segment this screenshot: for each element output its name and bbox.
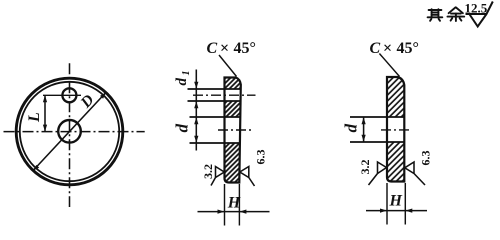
hanzi YU (余) bbox=[448, 7, 465, 21]
svg-text:C: C bbox=[370, 40, 381, 57]
section outline bbox=[225, 78, 241, 183]
svg-text:12.5: 12.5 bbox=[465, 1, 488, 16]
general roughness 12.5 symbol bbox=[466, 2, 493, 27]
dimension L line bbox=[44, 95, 46, 131]
H arrow right (right view) bbox=[405, 209, 412, 213]
dimension L arrow down bbox=[43, 125, 47, 132]
H arrow left (right view) bbox=[380, 209, 387, 213]
hole d1 centerline bbox=[193, 94, 256, 96]
chamfer leader line (right) bbox=[379, 54, 399, 77]
H arrow left (middle) bbox=[218, 210, 225, 214]
d1 arrow from above bbox=[194, 82, 198, 89]
center hole bbox=[58, 120, 81, 143]
H arrow right (middle) bbox=[239, 210, 246, 214]
roughness 6.3 symbol (middle right) bbox=[240, 167, 255, 187]
small hole bbox=[62, 88, 76, 102]
vertical centerline bbox=[69, 63, 71, 207]
svg-text:d: d bbox=[342, 124, 361, 133]
dimension D arrow lower-left bbox=[33, 165, 39, 171]
dimension D arrow upper-right bbox=[100, 92, 106, 98]
section body hatch bottom block (right) bbox=[387, 142, 404, 182]
hole d top edge / extension line (right) bbox=[350, 116, 404, 118]
H extension line left (right view) bbox=[386, 183, 388, 225]
svg-text:d: d bbox=[173, 124, 192, 133]
svg-text:L: L bbox=[26, 112, 43, 123]
H extension line right (right view) bbox=[404, 183, 406, 225]
H extension line right (middle) bbox=[238, 184, 240, 226]
section body hatch bottom block bbox=[225, 143, 241, 183]
small hole horizontal centerline bbox=[43, 94, 81, 96]
d1 arrow from below bbox=[194, 101, 198, 108]
d arrow up bbox=[194, 117, 198, 124]
H dimension line (middle) bbox=[198, 211, 270, 213]
horizontal centerline bbox=[4, 131, 145, 133]
H dimension line (right view) bbox=[366, 210, 427, 212]
svg-text:d1: d1 bbox=[174, 71, 192, 86]
svg-text:×: × bbox=[220, 40, 229, 57]
section body hatch top block (right) bbox=[387, 77, 404, 117]
section body hatch top block bbox=[225, 78, 241, 90]
svg-text:45°: 45° bbox=[397, 40, 419, 57]
section outline (right) bbox=[387, 77, 404, 182]
svg-text:H: H bbox=[227, 194, 241, 211]
roughness 3.2 symbol (right view) bbox=[369, 162, 387, 185]
roughness 6.3 symbol (right view) bbox=[405, 162, 425, 185]
hole d1 top edge / extension line bbox=[188, 88, 241, 90]
dimension D diagonal line bbox=[33, 92, 106, 170]
d arrow down bbox=[194, 136, 198, 143]
svg-text:6.3: 6.3 bbox=[419, 151, 433, 166]
svg-text:D: D bbox=[77, 91, 98, 112]
inner chamfer circle bbox=[20, 82, 119, 181]
svg-text:45°: 45° bbox=[234, 40, 256, 57]
H extension line left (middle) bbox=[224, 184, 226, 226]
hole d centerline (right) bbox=[381, 129, 412, 131]
hole d centerline bbox=[218, 129, 251, 131]
hanzi QI (其) bbox=[428, 9, 443, 21]
svg-text:6.3: 6.3 bbox=[254, 150, 268, 165]
svg-text:H: H bbox=[389, 192, 403, 209]
svg-text:3.2: 3.2 bbox=[358, 160, 372, 175]
svg-text:C: C bbox=[207, 40, 218, 57]
hole d top edge / extension line bbox=[190, 116, 241, 118]
d arrow down (right) bbox=[362, 135, 366, 142]
hole d bottom edge / extension line (right) bbox=[350, 141, 404, 143]
outer circle bbox=[16, 78, 123, 185]
chamfer leader line (middle) bbox=[219, 55, 237, 77]
d dimension line (right) bbox=[363, 117, 365, 142]
svg-text:×: × bbox=[383, 40, 392, 57]
hole d bottom edge / extension line bbox=[190, 142, 241, 144]
roughness 3.2 symbol (middle left) bbox=[211, 167, 224, 186]
d arrow up (right) bbox=[362, 117, 366, 124]
d1/d dimension line bbox=[195, 70, 197, 151]
svg-text:3.2: 3.2 bbox=[201, 164, 215, 179]
section body hatch middle block bbox=[225, 101, 241, 117]
hole d1 bottom edge / extension line bbox=[188, 100, 241, 102]
dimension L arrow up bbox=[43, 95, 47, 102]
